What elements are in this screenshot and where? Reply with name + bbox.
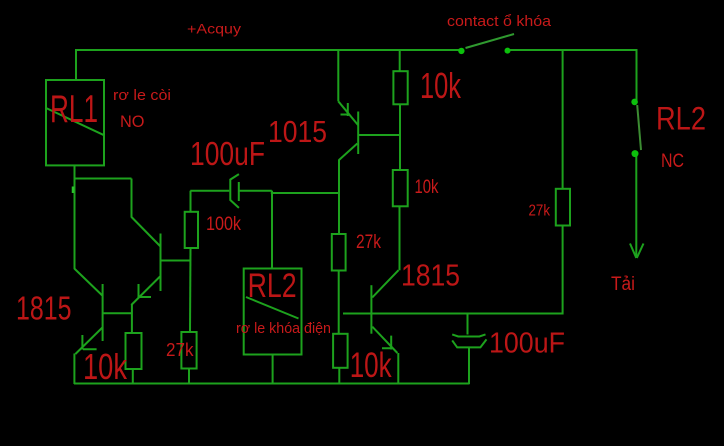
- svg-text:1015: 1015: [268, 114, 327, 149]
- svg-text:27k: 27k: [529, 203, 551, 220]
- wire diagonal into Q1 base bar: [74, 269, 102, 296]
- svg-text:RL2: RL2: [656, 101, 706, 137]
- wire 100k down through collector junction: [189, 248, 192, 332]
- svg-text:100k: 100k: [206, 214, 241, 235]
- svg-text:1815: 1815: [401, 258, 460, 293]
- wire Q3 emitter to ground bus: [397, 353, 399, 384]
- transistor U1 emitter arrow barbs: [341, 103, 348, 116]
- svg-text:RL1: RL1: [50, 88, 98, 131]
- capacitor C1 straight plate: [238, 182, 240, 201]
- wire top bus left segment (+Acquy rail): [76, 50, 461, 80]
- wire capacitor C2 top lead: [467, 314, 469, 335]
- wire R8 down to base rail corner: [562, 226, 564, 315]
- transistor Q3 emitter arrow barbs: [382, 336, 391, 350]
- wire right 27k column from bus: [562, 49, 564, 189]
- svg-text:NC: NC: [661, 151, 684, 172]
- wire from C1 node to 1015 collector column: [272, 191, 340, 193]
- node S1 right contact dot: [505, 48, 511, 54]
- resistor R6 10k box (top): [393, 71, 407, 104]
- wire diagonal into Q2 base bar: [132, 217, 161, 247]
- svg-text:100uF: 100uF: [190, 135, 265, 172]
- wire C1 right lead: [240, 190, 272, 192]
- wire R4 down to R5: [338, 271, 340, 335]
- svg-text:10k: 10k: [415, 177, 439, 198]
- wire between R6 and R7: [399, 104, 401, 170]
- svg-text:10k: 10k: [420, 65, 462, 106]
- transistor U1 1015 base bar: [357, 112, 359, 155]
- node S1 left contact dot: [458, 48, 464, 54]
- wire down to 100k resistor: [190, 191, 192, 212]
- transistor Q3 emitter diagonal: [372, 327, 397, 353]
- resistor R8 27k box (right column): [556, 189, 570, 226]
- svg-text:+Acquy: +Acquy: [187, 22, 241, 37]
- svg-text:10k: 10k: [83, 346, 128, 387]
- arrowhead Tai load arrow: [630, 244, 644, 259]
- relay coil RL1 box: [46, 80, 104, 165]
- transistor Q1 emitter diagonal: [75, 328, 102, 355]
- wire 1015 emitter from bus: [337, 49, 339, 101]
- svg-text:NO: NO: [120, 112, 145, 131]
- wire R1 to ground bus: [132, 369, 134, 384]
- switch S1 lever (contact o khoa): [466, 34, 515, 48]
- node S2 bottom contact dot: [632, 150, 639, 157]
- wire top bus right segment: [507, 50, 637, 102]
- switch S2 lever (RL2 contact): [637, 105, 641, 150]
- wire top 10k column from bus: [399, 49, 401, 71]
- wire RL1 bottom pin down to Q1 base: [74, 165, 76, 269]
- transistor Q1 emitter arrow barbs: [82, 335, 96, 350]
- transistor U1 collector diagonal: [339, 144, 357, 161]
- svg-text:27k: 27k: [166, 340, 194, 360]
- transistor Q3 collector diagonal: [372, 270, 398, 297]
- wire RL2 coil top pin: [271, 191, 273, 269]
- wire Q1 emitter to bottom bus corner: [73, 354, 75, 385]
- wire R7 down to Q3 collector: [399, 206, 401, 270]
- wire horizontal from RL1 pin to Q2 column: [75, 178, 132, 180]
- relay coil RL2 box: [244, 269, 302, 355]
- capacitor C2 top plate: [452, 334, 485, 336]
- wire R3 to ground bus: [188, 369, 190, 385]
- transistor U1 1015 emitter diagonal: [338, 101, 358, 125]
- wire capacitor C2 bottom lead to bus end: [468, 347, 470, 384]
- transistor Q2 base bar: [160, 234, 162, 292]
- wire bottom ground bus: [74, 383, 470, 385]
- transistor Q3 base bar: [370, 285, 372, 334]
- svg-text:1815: 1815: [16, 290, 72, 327]
- wire Tai arrow shaft: [635, 154, 637, 257]
- svg-text:RL2: RL2: [248, 267, 297, 305]
- capacitor C1 curved plate: [230, 174, 239, 208]
- svg-text:10k: 10k: [350, 346, 392, 385]
- relay RL2 internal diagonal: [246, 297, 299, 319]
- resistor R4 27k box (middle column): [332, 234, 346, 271]
- svg-text:Tải: Tải: [611, 274, 635, 295]
- wire U1 collector column down: [338, 160, 340, 235]
- transistor Q2 emitter diagonal: [131, 277, 160, 306]
- transistor Q2 emitter arrow barbs: [139, 284, 152, 298]
- resistor R3 27k box (bottom, left-middle): [181, 332, 196, 369]
- svg-text:rơ le khóa điện: rơ le khóa điện: [236, 320, 331, 337]
- wire R5 to ground bus: [338, 368, 340, 384]
- node tick on RL1 bottom wire: [72, 187, 75, 194]
- resistor R5 10k box (bottom middle): [333, 334, 348, 368]
- resistor R7 10k box (second): [393, 170, 408, 206]
- svg-text:rơ le còi: rơ le còi: [113, 87, 171, 104]
- wire capacitor C1 left lead: [190, 190, 229, 192]
- svg-text:contact ổ khóa: contact ổ khóa: [447, 13, 552, 30]
- wire vertical Q2 base feed: [131, 179, 133, 218]
- resistor R1 10k box (bottom left): [126, 333, 142, 369]
- wire Q2 emitter down to node A: [131, 305, 133, 335]
- svg-text:27k: 27k: [356, 232, 381, 253]
- node S2 top contact dot: [631, 99, 638, 106]
- transistor U1 base wire: [359, 134, 400, 136]
- transistor Q1 base bar: [102, 284, 104, 341]
- svg-text:100uF: 100uF: [489, 328, 565, 360]
- relay RL1 internal diagonal: [46, 108, 104, 135]
- transistor Q2 collector wire: [161, 260, 191, 262]
- wire Q3 base horizontal rail to 27k column: [343, 313, 563, 315]
- transistor Q1 collector wire: [103, 312, 132, 314]
- resistor R2 100k box: [185, 212, 198, 248]
- wire RL2 coil bottom pin: [272, 355, 274, 385]
- capacitor C2 curved bottom plate: [452, 339, 486, 347]
